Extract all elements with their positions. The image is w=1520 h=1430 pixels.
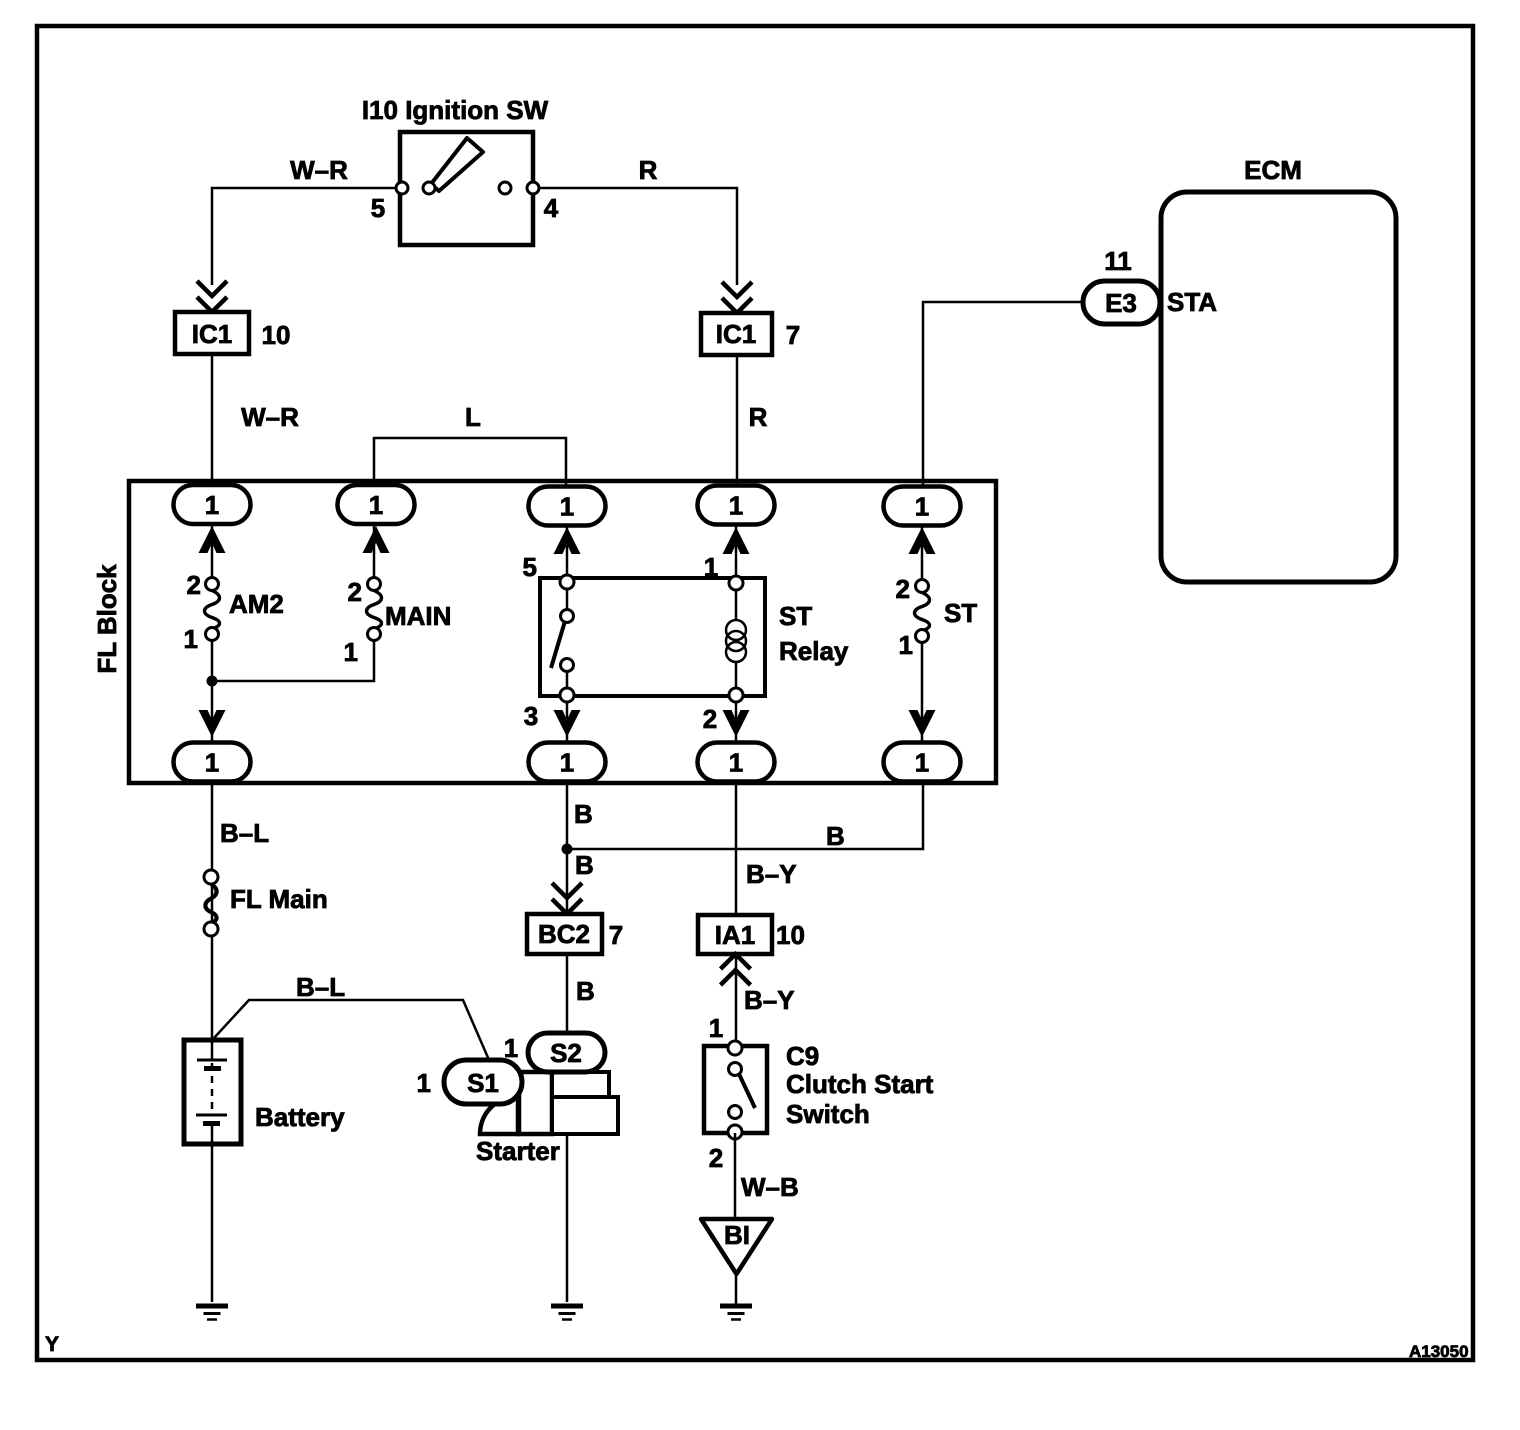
svg-text:IC1: IC1 — [192, 319, 232, 349]
svg-text:C9: C9 — [786, 1041, 819, 1071]
starter body — [519, 1072, 552, 1134]
battery — [184, 1040, 241, 1144]
junction dot AM2/MAIN — [207, 676, 218, 687]
svg-text:L: L — [465, 402, 481, 432]
connector BC2 box — [527, 914, 602, 954]
flow arrows under top ovals — [199, 526, 226, 553]
svg-text:STA: STA — [1167, 287, 1217, 317]
svg-text:2: 2 — [187, 570, 201, 600]
svg-text:I10 Ignition SW: I10 Ignition SW — [362, 95, 549, 125]
wire W-B — [734, 1133, 737, 1219]
svg-text:R: R — [749, 402, 768, 432]
svg-text:2: 2 — [896, 574, 910, 604]
wire relay coil column — [735, 524, 738, 580]
svg-text:B–L: B–L — [296, 972, 345, 1002]
wire AM2 column — [211, 524, 214, 584]
svg-text:BC2: BC2 — [538, 919, 590, 949]
relay coil — [735, 590, 738, 621]
FL block top oval terminals — [174, 485, 251, 524]
wire B-L battery to starter S1 — [214, 1000, 489, 1060]
svg-text:7: 7 — [786, 320, 800, 350]
svg-text:S2: S2 — [550, 1038, 582, 1068]
svg-text:Switch: Switch — [786, 1099, 870, 1129]
svg-text:2: 2 — [703, 704, 717, 734]
ground BI — [720, 1306, 752, 1320]
svg-text:1: 1 — [899, 630, 913, 660]
ignition switch contact circles — [396, 182, 539, 194]
svg-text:Starter: Starter — [476, 1136, 560, 1166]
BI ground triangle — [701, 1219, 772, 1274]
ground battery — [196, 1306, 228, 1320]
ignition switch I10 box — [400, 132, 533, 245]
svg-text:7: 7 — [609, 920, 623, 950]
svg-text:FL Main: FL Main — [230, 884, 328, 914]
svg-text:1: 1 — [709, 1013, 723, 1043]
svg-text:10: 10 — [262, 320, 291, 350]
svg-text:W–R: W–R — [290, 155, 348, 185]
svg-text:5: 5 — [523, 552, 537, 582]
junction dot B — [562, 844, 573, 855]
wire R from IC1 to FL block — [736, 355, 739, 488]
connector chevrons into IC1 right — [722, 282, 752, 313]
connector IA1 box — [698, 915, 772, 954]
fuse AM2 — [205, 578, 220, 641]
svg-text:B: B — [576, 976, 595, 1006]
svg-text:ST: ST — [944, 598, 977, 628]
svg-text:R: R — [639, 155, 658, 185]
starter terminal S1 — [444, 1060, 522, 1104]
svg-text:S1: S1 — [467, 1068, 499, 1098]
wire B from BC2 to starter S2 — [566, 954, 569, 1302]
clutch switch blade — [739, 1074, 755, 1108]
svg-text:A13050: A13050 — [1409, 1342, 1469, 1361]
svg-text:Y: Y — [45, 1333, 59, 1356]
wire L loop — [374, 438, 566, 488]
relay switch contacts and blade — [566, 588, 569, 611]
svg-text:1: 1 — [184, 624, 198, 654]
clutch start switch C9 box — [704, 1046, 767, 1133]
svg-text:1: 1 — [704, 552, 718, 582]
connector E3 oval — [1083, 281, 1160, 324]
connector chevrons into IC1 left — [197, 281, 227, 312]
connector chevrons out of IA1 — [721, 954, 751, 985]
wire B-Y from relay coil to IA1 — [735, 781, 738, 915]
svg-text:MAIN: MAIN — [385, 601, 451, 631]
ECM box — [1161, 192, 1396, 582]
svg-text:B: B — [826, 821, 845, 851]
svg-text:W–B: W–B — [741, 1172, 799, 1202]
wire ST fuse column — [921, 524, 924, 586]
svg-text:B: B — [575, 850, 594, 880]
svg-text:2: 2 — [348, 577, 362, 607]
svg-text:4: 4 — [544, 193, 559, 223]
svg-text:B: B — [574, 799, 593, 829]
wire B-Y from IA1 to clutch start switch — [735, 954, 738, 1046]
svg-text:B–Y: B–Y — [744, 985, 795, 1015]
svg-text:FL Block: FL Block — [92, 564, 122, 674]
wire B from relay to BC2 and junction — [566, 781, 569, 913]
svg-text:3: 3 — [524, 701, 538, 731]
svg-text:ECM: ECM — [1244, 155, 1302, 185]
wire B from ST fuse bottom across — [567, 781, 923, 849]
svg-text:BI: BI — [724, 1220, 750, 1250]
wire R from ignition SW pin 4 to IC1 — [533, 188, 737, 285]
wire B from FL block to ECM STA terminal E3 — [923, 302, 1083, 488]
FL block bottom oval terminals — [174, 743, 251, 782]
flow arrows above bottom ovals — [199, 710, 226, 737]
svg-text:Battery: Battery — [255, 1102, 345, 1132]
svg-text:W–R: W–R — [241, 402, 299, 432]
connector chevrons into BC2 — [552, 883, 582, 914]
svg-text:ST: ST — [779, 601, 812, 631]
wire relay switch column — [566, 524, 569, 578]
fuse FL Main — [204, 870, 218, 936]
starter nose wedge — [480, 1096, 518, 1134]
fuse ST — [915, 580, 930, 643]
starter terminal S2 — [528, 1033, 605, 1072]
FL Block box — [129, 481, 996, 783]
svg-text:B–Y: B–Y — [746, 859, 797, 889]
svg-text:Relay: Relay — [779, 636, 849, 666]
fuse MAIN — [367, 578, 382, 641]
svg-text:2: 2 — [709, 1143, 723, 1173]
wire B-L from FL block to battery — [211, 781, 214, 1062]
connector IC1 right box — [701, 313, 772, 355]
svg-text:B–L: B–L — [220, 818, 269, 848]
svg-text:IA1: IA1 — [715, 920, 755, 950]
wire MAIN column — [373, 524, 376, 584]
svg-text:1: 1 — [417, 1068, 431, 1098]
svg-text:5: 5 — [371, 193, 385, 223]
svg-text:E3: E3 — [1105, 288, 1137, 318]
wire W-R from ignition SW pin 5 to IC1 — [212, 188, 402, 285]
ignition switch lever — [431, 138, 483, 191]
wire BI to ground — [735, 1274, 738, 1305]
svg-text:11: 11 — [1104, 246, 1132, 276]
svg-text:1: 1 — [344, 637, 358, 667]
svg-text:Clutch Start: Clutch Start — [786, 1069, 934, 1099]
ST relay box — [540, 578, 765, 696]
svg-text:AM2: AM2 — [229, 589, 284, 619]
wire W-R from IC1 to FL block — [211, 354, 214, 488]
svg-text:10: 10 — [776, 920, 805, 950]
ground starter — [551, 1306, 583, 1320]
connector IC1 left box — [175, 312, 249, 354]
svg-text:IC1: IC1 — [716, 319, 756, 349]
clutch switch contacts — [728, 1041, 742, 1139]
